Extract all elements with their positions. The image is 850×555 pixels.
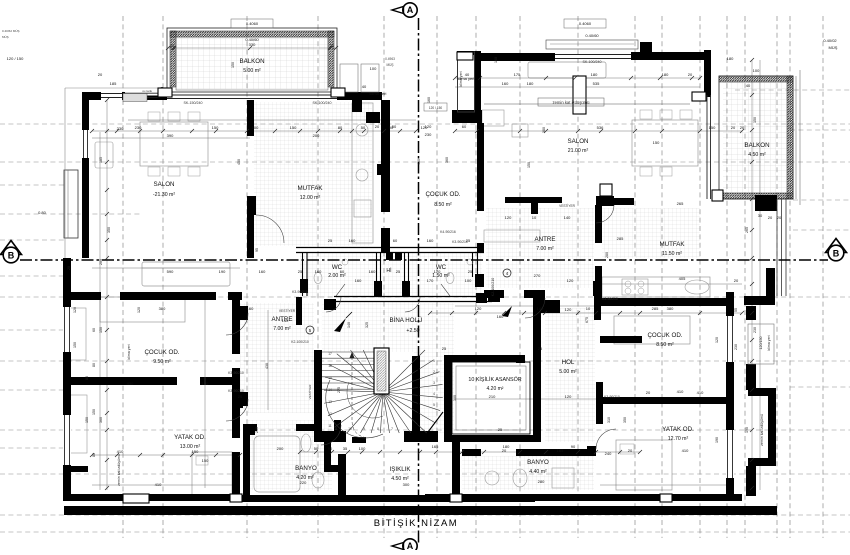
svg-text:0.4963: 0.4963 <box>385 57 395 61</box>
svg-text:150: 150 <box>202 458 209 463</box>
svg-text:MÜŞ: MÜŞ <box>2 35 9 39</box>
box label klima 120-150 <box>424 103 447 111</box>
grid line horizontal y=185 <box>0 184 66 186</box>
svg-text:A: A <box>407 541 414 550</box>
svg-text:230: 230 <box>734 344 738 350</box>
svg-text:140: 140 <box>537 306 544 311</box>
svg-text:K3-90/210: K3-90/210 <box>602 297 618 301</box>
svg-text:360: 360 <box>445 157 449 163</box>
dimension line <box>600 484 730 486</box>
svg-text:150: 150 <box>753 117 757 123</box>
svg-text:10: 10 <box>586 306 591 311</box>
svg-text:11.50 m²: 11.50 m² <box>662 251 682 257</box>
furniture armchair left salon <box>95 142 113 168</box>
svg-text:zemin kat izdüşümü: zemin kat izdüşümü <box>552 100 590 105</box>
ticks mid dim row right <box>428 311 432 315</box>
svg-text:100: 100 <box>370 66 377 71</box>
column mid bottom <box>450 494 462 502</box>
wall right bay outer <box>768 388 776 464</box>
svg-text:120: 120 <box>565 394 572 399</box>
door block salon R 2 <box>605 196 614 206</box>
furniture bed right yatak <box>616 440 672 490</box>
wall elevator right <box>533 297 541 441</box>
tile area banyo left <box>246 420 332 490</box>
svg-text:MUTFAK: MUTFAK <box>659 241 685 248</box>
grid line vertical x=247 <box>246 16 248 538</box>
svg-text:MÜŞ: MÜŞ <box>829 45 838 50</box>
svg-text:410: 410 <box>677 389 684 394</box>
door block hol entry <box>541 300 560 313</box>
wall antre-mutfak divider lower <box>595 266 602 298</box>
svg-text:180: 180 <box>591 72 598 77</box>
wall mutfak left right vertical <box>381 118 390 212</box>
grid line vertical x=437 <box>436 16 438 538</box>
lot boundary left vertical <box>64 88 66 258</box>
svg-text:410: 410 <box>117 449 124 454</box>
wc strip top wall <box>296 247 484 249</box>
wall elevator left <box>444 355 452 441</box>
svg-text:BANYO: BANYO <box>527 459 549 466</box>
svg-text:MUTFAK: MUTFAK <box>297 185 323 192</box>
furniture wardrobe left yatak <box>67 395 87 453</box>
svg-text:35: 35 <box>343 446 348 451</box>
svg-text:185: 185 <box>99 157 103 163</box>
black block yatak-left door <box>234 398 243 408</box>
dimension line <box>92 130 416 132</box>
balcony right outer frame <box>719 76 793 199</box>
door block salon R 1 <box>596 196 605 206</box>
ticks left vertical chain <box>105 98 109 102</box>
column right balcony low <box>712 190 723 201</box>
grid line horizontal y=90 <box>735 89 850 91</box>
grid line vertical x=476 <box>475 16 477 538</box>
door block klima step <box>366 112 380 123</box>
svg-text:klima yeri: klima yeri <box>370 91 387 96</box>
stair upper treads <box>322 351 374 353</box>
svg-text:10: 10 <box>532 215 537 220</box>
wall mutfak left right vertical b <box>381 228 390 253</box>
dimension chain x205 <box>204 300 206 488</box>
dimension line <box>99 132 101 490</box>
grid line vertical x=700 <box>699 16 701 538</box>
dimension line <box>455 398 596 400</box>
svg-text:190: 190 <box>715 437 719 443</box>
grid line vertical x=520 <box>519 16 521 538</box>
wall right bay conn top <box>748 388 776 396</box>
svg-text:180: 180 <box>727 56 734 61</box>
svg-text:0.4060: 0.4060 <box>246 21 259 26</box>
wall left-unit bottom <box>64 494 235 501</box>
svg-text:K2-100/210: K2-100/210 <box>291 340 309 344</box>
wall stair right <box>412 356 420 442</box>
door block bina holu 1 <box>386 253 393 260</box>
stair fan treads <box>383 350 425 392</box>
dimension line <box>168 47 336 49</box>
wc post right <box>475 274 484 287</box>
svg-text:410: 410 <box>697 390 704 395</box>
wall klima shaft top <box>457 51 481 55</box>
svg-text:20: 20 <box>98 72 103 77</box>
wall right stub a <box>746 306 756 320</box>
svg-text:50: 50 <box>361 125 366 130</box>
wc post right top <box>477 243 484 252</box>
svg-text:5.00 m²: 5.00 m² <box>243 68 261 74</box>
window left wall yatak <box>63 415 71 465</box>
balcony right band bottom <box>719 193 793 199</box>
svg-text:K3-90/210: K3-90/210 <box>228 371 244 375</box>
svg-text:25: 25 <box>442 346 447 351</box>
svg-text:325: 325 <box>365 322 369 328</box>
svg-text:150: 150 <box>73 342 77 348</box>
entry arrow bina holu <box>334 318 346 332</box>
door arc cocuk left <box>226 313 248 335</box>
wall cocuk-yatak divider right <box>602 397 734 404</box>
svg-text:410: 410 <box>155 482 162 487</box>
svg-text:240: 240 <box>605 451 612 456</box>
grid line horizontal y=297 <box>0 296 850 298</box>
svg-text:120: 120 <box>565 307 572 312</box>
ticks top-left dim row <box>90 129 94 133</box>
svg-text:60: 60 <box>340 269 345 274</box>
svg-text:150: 150 <box>202 381 209 386</box>
axis marker A bottom <box>403 539 417 553</box>
svg-text:-21.30 m²: -21.30 m² <box>153 192 175 198</box>
wc strip bottom wall <box>334 296 492 298</box>
grid line vertical x=790 <box>789 16 791 538</box>
door block yatak L <box>240 392 248 406</box>
svg-text:YATAK OD.: YATAK OD. <box>174 434 206 441</box>
svg-text:200: 200 <box>313 133 320 138</box>
svg-text:zemin kat izdüşümü: zemin kat izdüşümü <box>117 454 121 486</box>
svg-text:80: 80 <box>92 363 96 367</box>
column right-unit top <box>457 52 473 60</box>
grid line horizontal y=240 <box>0 239 66 241</box>
elevator car <box>452 362 530 434</box>
svg-text:B: B <box>833 249 840 259</box>
svg-text:405: 405 <box>679 276 686 281</box>
tile area wc strip <box>300 253 482 298</box>
grid line horizontal y=532 <box>0 531 850 533</box>
dimension line <box>92 484 235 486</box>
tile area balcony top-left <box>176 37 328 89</box>
svg-text:25: 25 <box>328 238 333 243</box>
grid line vertical x=318 <box>317 16 319 538</box>
tile area banyo right <box>462 456 594 490</box>
svg-text:25: 25 <box>538 346 543 351</box>
wc divider a <box>376 253 378 282</box>
wall right salon bottom a <box>505 197 562 203</box>
wall stub bottom-left corner <box>64 466 88 472</box>
wall cocuk right left v <box>594 290 601 320</box>
svg-text:380: 380 <box>159 306 166 311</box>
svg-text:150: 150 <box>709 125 716 130</box>
svg-text:20: 20 <box>734 278 739 283</box>
svg-text:0.40/60: 0.40/60 <box>245 37 259 42</box>
svg-text:230: 230 <box>135 125 142 130</box>
furniture dining table right salon <box>632 120 698 166</box>
axis marker B left <box>1 241 22 255</box>
svg-text:SK-100/240: SK-100/240 <box>313 101 332 105</box>
tile area bina holu <box>322 302 414 352</box>
svg-text:30: 30 <box>758 213 763 218</box>
svg-text:590: 590 <box>167 269 174 274</box>
wall stair bottom a <box>314 431 346 442</box>
svg-text:14: 14 <box>328 388 332 392</box>
grid line horizontal y=124 <box>0 123 850 125</box>
svg-text:Hİ: Hİ <box>386 267 391 274</box>
svg-text:430: 430 <box>127 381 134 386</box>
klima shaft box <box>458 52 475 112</box>
furniture bathtub banyo left <box>254 436 300 492</box>
svg-text:20: 20 <box>502 448 507 453</box>
svg-text:310: 310 <box>607 417 611 423</box>
svg-text:175: 175 <box>514 72 521 77</box>
klima box right margin <box>748 324 774 364</box>
svg-text:+2.50: +2.50 <box>406 328 419 334</box>
svg-text:9.50 m²: 9.50 m² <box>153 359 171 365</box>
svg-text:140: 140 <box>282 318 289 323</box>
svg-text:200: 200 <box>277 446 284 451</box>
svg-text:150: 150 <box>192 449 199 454</box>
svg-text:360: 360 <box>99 417 103 423</box>
svg-text:ÇOCUK OD.: ÇOCUK OD. <box>647 332 682 339</box>
svg-text:ısı tank: ısı tank <box>142 89 152 93</box>
svg-text:160: 160 <box>259 269 266 274</box>
tile area elevator lobby <box>414 303 454 433</box>
wall elevator bottom <box>444 435 541 442</box>
grid line vertical x=662 <box>661 16 663 538</box>
klima shelf top wall <box>123 94 147 102</box>
svg-text:0.4060: 0.4060 <box>579 21 592 26</box>
svg-text:9: 9 <box>363 427 365 431</box>
grid line vertical x=635 <box>634 16 636 538</box>
svg-text:1: 1 <box>433 359 435 363</box>
box label above balcony left <box>231 19 273 28</box>
window sill right top <box>555 54 631 56</box>
wall right-unit inner vertical <box>477 123 484 211</box>
svg-text:100: 100 <box>359 446 366 451</box>
wall cocuk-yatak left b <box>200 377 234 385</box>
grid line horizontal y=448 <box>0 447 66 449</box>
grid line vertical x=727 <box>726 16 728 538</box>
svg-text:25: 25 <box>396 269 401 274</box>
svg-text:BALKON: BALKON <box>744 142 769 149</box>
svg-text:IŞIKLIK: IŞIKLIK <box>390 466 412 473</box>
tile area hol right <box>545 308 595 442</box>
door arc yatak left <box>226 399 248 421</box>
svg-text:185: 185 <box>110 81 117 86</box>
dimension line <box>455 86 700 88</box>
radiator niche left wall <box>64 170 78 238</box>
grid line vertical x=745 <box>744 16 746 538</box>
door arc banyo left <box>321 425 341 445</box>
svg-text:8: 8 <box>377 427 379 431</box>
svg-text:80: 80 <box>85 376 89 380</box>
tile area antre right <box>486 208 594 288</box>
svg-text:K3-90/210: K3-90/210 <box>452 240 468 244</box>
grid line vertical x=123 <box>122 16 124 538</box>
wall left-unit top right of balcony <box>337 92 382 100</box>
svg-text:180: 180 <box>662 72 669 77</box>
svg-text:160: 160 <box>247 306 254 311</box>
svg-text:190: 190 <box>745 427 749 433</box>
grid line horizontal y=200 <box>793 199 850 201</box>
stair diag brace <box>428 412 443 432</box>
svg-text:675: 675 <box>585 317 589 323</box>
wall right-unit hol edge <box>596 382 603 424</box>
door block mutfak top <box>352 100 362 112</box>
wall isiklik right <box>452 441 460 499</box>
door block cocuk L <box>240 306 248 320</box>
dimension line <box>455 305 596 307</box>
svg-text:VESTİYER: VESTİYER <box>559 203 575 208</box>
wall rooms right edge mid <box>232 368 240 438</box>
svg-text:300: 300 <box>403 482 410 487</box>
door arc antre right <box>525 298 545 318</box>
wall right-unit bottom <box>425 494 742 501</box>
label zemin kat izdusumu right <box>538 98 604 106</box>
svg-text:klima yeri: klima yeri <box>767 335 771 350</box>
svg-text:450: 450 <box>237 159 241 165</box>
site boundary bar <box>64 506 777 515</box>
door arc salon right <box>596 205 614 223</box>
wc fixtures <box>314 273 322 284</box>
dimension line <box>455 77 700 79</box>
svg-text:10 KİŞİLİK ASANSÖR: 10 KİŞİLİK ASANSÖR <box>468 376 521 383</box>
svg-text:280: 280 <box>538 479 545 484</box>
furniture kitchen counter left <box>352 103 373 243</box>
axis B-B horizontal <box>20 259 828 261</box>
black block banyo-left door <box>247 426 255 435</box>
svg-text:120: 120 <box>475 306 482 311</box>
svg-text:160: 160 <box>315 269 322 274</box>
furniture dining table left salon <box>140 122 208 166</box>
svg-text:4.50 m²: 4.50 m² <box>748 152 766 158</box>
svg-text:165: 165 <box>432 444 439 449</box>
wall cocuk right top <box>596 298 734 306</box>
svg-text:20: 20 <box>67 266 71 270</box>
svg-text:165: 165 <box>557 448 564 453</box>
svg-text:160: 160 <box>369 269 376 274</box>
door block elevator <box>516 355 525 363</box>
svg-text:535: 535 <box>593 81 600 86</box>
wall block east mid <box>766 268 775 296</box>
furniture banyo right fixtures <box>513 469 527 487</box>
svg-text:20: 20 <box>777 215 782 220</box>
svg-text:5.00 m²: 5.00 m² <box>559 369 577 375</box>
svg-text:275: 275 <box>337 387 341 393</box>
svg-text:95: 95 <box>255 248 259 252</box>
svg-text:2: 2 <box>433 370 435 374</box>
column top-left balcony L <box>158 88 172 97</box>
svg-text:BİTİŞİK NİZAM: BİTİŞİK NİZAM <box>374 518 458 529</box>
window sill under balcony <box>167 94 337 96</box>
svg-text:20: 20 <box>628 448 633 453</box>
wall klima shaft right <box>474 51 481 113</box>
svg-text:11: 11 <box>334 427 338 431</box>
svg-text:20: 20 <box>170 43 175 48</box>
svg-text:350: 350 <box>623 417 627 423</box>
furniture kitchen counter right <box>602 277 710 297</box>
wall right-unit top a <box>481 53 555 61</box>
wall left-unit top left <box>85 92 167 100</box>
window sill right salon <box>706 95 708 199</box>
grid line horizontal y=430 <box>0 429 850 431</box>
svg-text:ÇOCUK OD.: ÇOCUK OD. <box>425 191 460 198</box>
wall right stub c <box>746 466 756 496</box>
wc divider b <box>404 253 406 282</box>
door block bina holu 2 <box>395 253 402 260</box>
tile area antre left <box>240 303 314 413</box>
svg-text:klima yeri: klima yeri <box>459 71 463 86</box>
svg-text:265: 265 <box>745 227 749 233</box>
svg-text:150: 150 <box>653 140 660 145</box>
wall east bottom <box>744 296 775 305</box>
svg-text:270: 270 <box>534 273 541 278</box>
door block mutfak-left wall <box>377 164 385 175</box>
grid line horizontal y=515 <box>0 514 850 516</box>
svg-text:17: 17 <box>328 352 332 356</box>
dimension line <box>128 119 416 121</box>
svg-text:120/150: 120/150 <box>759 337 763 350</box>
svg-text:0.40/60: 0.40/60 <box>585 33 599 38</box>
svg-text:120: 120 <box>715 337 719 343</box>
svg-text:140: 140 <box>347 322 351 328</box>
klima box top-center a <box>340 64 358 92</box>
svg-text:205: 205 <box>99 259 103 265</box>
wall right-unit hol stub a <box>600 336 642 343</box>
svg-text:150: 150 <box>92 409 96 415</box>
door block salon-mutfak <box>247 196 256 215</box>
door block hall top R <box>488 293 500 302</box>
ticks right vertical chain <box>750 58 754 62</box>
wall banyo-left top b <box>296 424 322 431</box>
column right salon window <box>573 76 586 114</box>
tile area kitchen left <box>254 102 372 246</box>
ticks left bottom row <box>90 453 94 457</box>
svg-text:15: 15 <box>328 376 332 380</box>
svg-text:13: 13 <box>328 400 332 404</box>
wall banyo-left top a <box>243 424 257 431</box>
ticks right-top dim row <box>453 76 457 80</box>
wall right-unit corner block <box>452 110 482 123</box>
svg-text:SK-150/240: SK-150/240 <box>184 101 203 105</box>
svg-text:8.50 m²: 8.50 m² <box>434 202 452 208</box>
tile area kitchen right <box>602 208 700 258</box>
grid line horizontal y=330 <box>0 329 66 331</box>
axis marker A top <box>403 3 417 17</box>
svg-text:YATAK OD.: YATAK OD. <box>662 426 694 433</box>
svg-text:60: 60 <box>462 124 467 129</box>
window band east <box>776 199 778 296</box>
svg-text:10: 10 <box>348 427 352 431</box>
svg-text:140: 140 <box>564 215 571 220</box>
svg-text:120: 120 <box>505 215 512 220</box>
svg-text:150: 150 <box>231 62 235 68</box>
svg-text:410: 410 <box>417 159 421 165</box>
balcony right band top <box>719 76 793 82</box>
svg-text:430: 430 <box>265 363 269 369</box>
dimension line <box>92 267 240 269</box>
balcony right rail lines <box>795 76 797 199</box>
door block hol <box>533 293 545 308</box>
window gap left top wall <box>101 92 122 100</box>
ticks bottom dim row <box>298 450 302 454</box>
svg-text:150: 150 <box>99 327 103 333</box>
wall salon-mutfak upper <box>247 100 254 136</box>
beam recess right top <box>546 40 638 49</box>
svg-text:20: 20 <box>375 124 380 129</box>
